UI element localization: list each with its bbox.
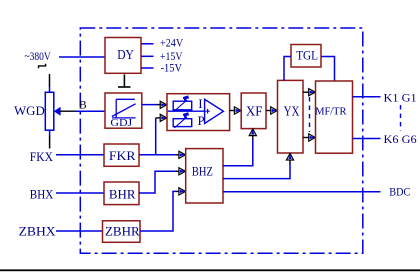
wire K1 output <box>353 96 381 98</box>
trigger-angle regulator GDJ <box>105 93 142 129</box>
wire ZBHX input <box>56 230 103 232</box>
svg-text:I: I <box>198 96 202 111</box>
svg-text:+15V: +15V <box>160 51 183 63</box>
arrow into P input <box>160 114 167 121</box>
svg-text:-15V: -15V <box>161 63 183 75</box>
enclosure dash-dot boundary <box>80 28 363 253</box>
dashed K1..K6 indicator <box>400 105 402 131</box>
arrow into BHZ in2 <box>179 168 186 175</box>
wire FKX input <box>56 154 104 156</box>
protection relay BHR <box>104 182 139 205</box>
svg-text:WGD: WGD <box>14 104 45 118</box>
rheostat I <box>173 101 192 110</box>
wire +24V stub <box>141 43 154 45</box>
trigger TGL <box>291 45 321 68</box>
wire YX to MFVTR channel 6 <box>303 137 309 139</box>
arrow into XF <box>234 107 241 114</box>
power supply DY <box>105 38 141 74</box>
dashed channels indicator <box>309 97 311 132</box>
svg-text:XF: XF <box>246 103 263 118</box>
wire +15V stub <box>141 55 154 57</box>
svg-text:GDJ: GDJ <box>110 117 133 129</box>
arrow into MFVTR ch6 <box>309 134 316 141</box>
protection unit BHZ <box>186 149 223 203</box>
svg-text:K6 G6: K6 G6 <box>384 132 417 146</box>
svg-text:DY: DY <box>117 47 134 62</box>
wire BHZ to XF bottom <box>223 136 253 166</box>
svg-text:BHZ: BHZ <box>192 164 213 179</box>
wire pot bottom lead <box>49 130 51 148</box>
svg-text:ZBHR: ZBHR <box>105 224 140 239</box>
wire P branch from FKR line <box>156 118 160 155</box>
svg-text:YX: YX <box>284 104 300 119</box>
svg-text:B: B <box>79 99 87 111</box>
pulse output box MF/TR <box>315 81 352 153</box>
ground below DY <box>118 75 131 88</box>
svg-text:FKX: FKX <box>30 150 53 164</box>
plus sign <box>205 109 210 114</box>
arrow up into YX bottom <box>286 153 293 160</box>
svg-text:MF/TR: MF/TR <box>315 106 347 118</box>
phase-shift box XF <box>241 93 266 129</box>
wire FKR to BHZ <box>139 154 180 156</box>
wire BHZ to BDC <box>223 191 381 193</box>
amplifier box YX <box>278 80 304 153</box>
arrow into BHZ in3 <box>179 188 186 195</box>
potentiometer WGD <box>45 92 54 130</box>
wire GDJ output to regulator <box>142 104 161 106</box>
op-amp triangle <box>205 99 224 123</box>
svg-text:BDC: BDC <box>389 185 410 199</box>
svg-text:TGL: TGL <box>296 47 318 62</box>
wire ~380V input <box>59 56 105 58</box>
rheostat P <box>173 119 192 127</box>
wire TGL to MFVTR <box>321 57 335 82</box>
wire pot top lead <box>49 74 51 93</box>
wire -15V stub <box>141 67 154 69</box>
svg-text:K1 G1: K1 G1 <box>384 90 417 104</box>
wire BHR to BHZ <box>139 171 180 193</box>
svg-text:P: P <box>198 114 205 128</box>
svg-text:BHX: BHX <box>30 187 54 201</box>
svg-text:~380V: ~380V <box>25 51 52 63</box>
page bottom rule <box>0 269 420 271</box>
wire regulator to XF <box>230 110 235 112</box>
svg-text:FKR: FKR <box>109 148 136 163</box>
svg-text:+24V: +24V <box>160 37 184 49</box>
arrow into BHZ in1 <box>179 151 186 158</box>
svg-text:ZBHX: ZBHX <box>19 224 56 238</box>
wire BHX input <box>56 192 104 194</box>
standby protection relay ZBHR <box>103 221 141 243</box>
arrow into YX <box>271 107 278 114</box>
input rail <box>168 110 205 112</box>
wiper arrow into WGD <box>54 107 105 116</box>
wire TGL to YX <box>284 57 291 81</box>
wire BHZ to YX bottom <box>223 160 290 179</box>
wire YX to MFVTR channel 1 <box>303 91 309 93</box>
svg-text:BHR: BHR <box>109 186 136 201</box>
feedback unit FKR <box>104 144 139 166</box>
arrow up into XF bottom <box>249 129 256 136</box>
voltage tap symbol <box>39 64 46 69</box>
wire XF to YX <box>266 110 271 112</box>
arrow into I input <box>160 101 167 108</box>
wire ZBHR to BHZ <box>140 191 180 231</box>
wire K6 output <box>353 138 381 140</box>
regulator op-amp box U1 <box>167 94 230 131</box>
arrow into MFVTR ch1 <box>309 89 316 96</box>
